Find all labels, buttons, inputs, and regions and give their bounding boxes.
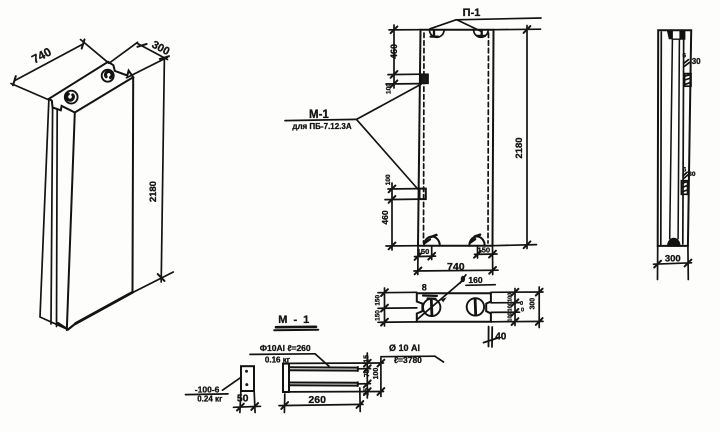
svg-text:70: 70 (364, 369, 371, 377)
iso dim 740 ext A (11, 84, 48, 100)
front top loop anchor right (477, 30, 485, 36)
detail top rod (289, 367, 358, 371)
front bottom loop arc left (424, 237, 440, 246)
svg-text:160: 160 (468, 275, 482, 285)
section right chains (491, 291, 543, 293)
svg-text:460: 460 (380, 210, 390, 224)
svg-text:М-1: М-1 (309, 109, 329, 121)
svg-text:30: 30 (688, 171, 696, 178)
side plate upper (685, 74, 691, 87)
front bottom loop arc right (469, 237, 484, 246)
svg-text:100: 100 (373, 368, 380, 380)
section void bar right (474, 299, 477, 315)
label dia 160 leader (418, 282, 462, 319)
svg-text:-100-6: -100-6 (195, 385, 220, 395)
svg-text:300: 300 (665, 253, 681, 264)
front top loop anchor left (431, 30, 438, 37)
iso groove line 1 (51, 108, 53, 325)
svg-text:100: 100 (385, 174, 392, 185)
side channel line 2 (678, 39, 679, 238)
svg-text:740: 740 (447, 261, 465, 273)
front dim 150 left (417, 246, 419, 275)
front dashed void line right (487, 33, 490, 243)
front top loop recess left (430, 30, 445, 38)
iso dim 300 ext B (110, 42, 138, 62)
svg-text:0: 0 (521, 308, 524, 314)
detail anchor bar (283, 364, 289, 392)
iso dim 300 line (137, 43, 168, 59)
svg-text:300: 300 (150, 39, 172, 58)
embedded plate M-1 upper (421, 74, 428, 83)
side weld tick upper (684, 60, 690, 67)
dia symbol (461, 276, 465, 282)
side channel line 1 (670, 39, 673, 238)
svg-text:740: 740 (29, 44, 54, 66)
front left chain top (389, 29, 421, 31)
iso left side face outer edge (40, 99, 68, 330)
side outline (658, 30, 692, 246)
svg-text:150: 150 (417, 247, 430, 256)
svg-text:40: 40 (495, 331, 507, 342)
detail title underline (276, 325, 316, 328)
front bottom loop tick left (425, 235, 436, 243)
front dim 150 right (492, 246, 494, 275)
svg-text:6: 6 (683, 167, 687, 174)
iso groove line 2 (56, 109, 59, 327)
label M-1 leader line (285, 119, 357, 120)
dia 160 arrowhead (441, 297, 447, 302)
svg-text:150: 150 (478, 246, 491, 255)
front left chain bottom (388, 188, 420, 190)
svg-text:2180: 2180 (148, 181, 159, 202)
iso lifting loop circle 2 (102, 70, 114, 82)
iso dim 2180 line (161, 58, 164, 282)
svg-text:460: 460 (389, 44, 399, 59)
side bottom arc notch (668, 239, 680, 246)
svg-text:ℓ=3780: ℓ=3780 (394, 355, 422, 365)
section left chain (378, 291, 417, 293)
iso dim 740 line (14, 44, 83, 81)
iso lifting loop circle 1 (65, 91, 78, 104)
iso front face left edge (67, 113, 75, 331)
detail rod label underline (250, 353, 315, 356)
section outline with notches (417, 293, 491, 322)
iso dim 740 ext B (81, 40, 110, 64)
svg-text:15: 15 (364, 388, 371, 396)
front bottom loop tick right (471, 235, 481, 243)
svg-text:6: 6 (682, 52, 686, 59)
svg-text:М - 1: М - 1 (278, 314, 311, 326)
svg-text:для ПБ-7.12.3А: для ПБ-7.12.3А (292, 122, 351, 131)
iso dim 300 ext C (127, 57, 168, 78)
svg-text:Ф10АI ℓ=260: Ф10АI ℓ=260 (260, 343, 311, 353)
section dim 40 (488, 327, 490, 347)
svg-text:Ø 10 АI: Ø 10 АI (389, 343, 420, 353)
svg-text:2180: 2180 (514, 137, 525, 158)
front top loop recess right (474, 30, 489, 38)
svg-text:30: 30 (692, 57, 701, 66)
svg-text:260: 260 (308, 394, 326, 406)
svg-text:50: 50 (237, 393, 249, 405)
side dim 300 (657, 246, 659, 280)
svg-text:300: 300 (530, 298, 537, 310)
iso front face bottom thick edge (76, 292, 133, 323)
svg-text:100: 100 (508, 293, 514, 302)
side inner line left (660, 32, 663, 245)
label P-1 leader line (456, 18, 541, 20)
detail bottom rod (289, 382, 358, 386)
side plate lower (681, 181, 687, 195)
iso top face outline (49, 62, 133, 113)
svg-text:8: 8 (422, 283, 427, 293)
side inner line right (682, 32, 685, 244)
detail right chains (289, 362, 384, 364)
svg-text:100: 100 (508, 302, 514, 311)
side top notch (667, 31, 672, 39)
side weld tick lower (683, 172, 688, 178)
section void bar left (430, 300, 433, 316)
embedded plate M-1 lower (420, 189, 426, 200)
svg-text:0.24 кг: 0.24 кг (197, 394, 223, 403)
detail spiral label underline (381, 355, 435, 358)
iso left side bottom edge (58, 323, 76, 330)
front dim 2180 (494, 28, 541, 31)
iso loop hook 1 (67, 94, 74, 100)
svg-text:100: 100 (386, 83, 393, 94)
detail dim 260 (283, 394, 285, 413)
svg-text:0: 0 (520, 301, 523, 307)
front panel outline (418, 30, 494, 246)
svg-text:100: 100 (508, 312, 514, 321)
iso front face right edge (132, 77, 135, 292)
front dim 740 (414, 269, 498, 272)
section mark B dashes (423, 296, 437, 299)
svg-text:0.16 кг: 0.16 кг (265, 355, 291, 364)
section void circle right (467, 298, 484, 315)
svg-text:150: 150 (375, 295, 382, 306)
svg-text:15: 15 (364, 355, 371, 363)
iso dim 2180 bottom ext (133, 272, 173, 292)
iso loop hook 2 (105, 71, 112, 77)
detail plate (241, 366, 254, 391)
svg-text:150: 150 (375, 310, 382, 321)
detail plate label underline (186, 393, 229, 396)
section void circle left (423, 299, 440, 316)
front dashed void line left (423, 33, 426, 243)
svg-text:П-1: П-1 (463, 7, 481, 19)
detail dim 50 (239, 392, 242, 413)
